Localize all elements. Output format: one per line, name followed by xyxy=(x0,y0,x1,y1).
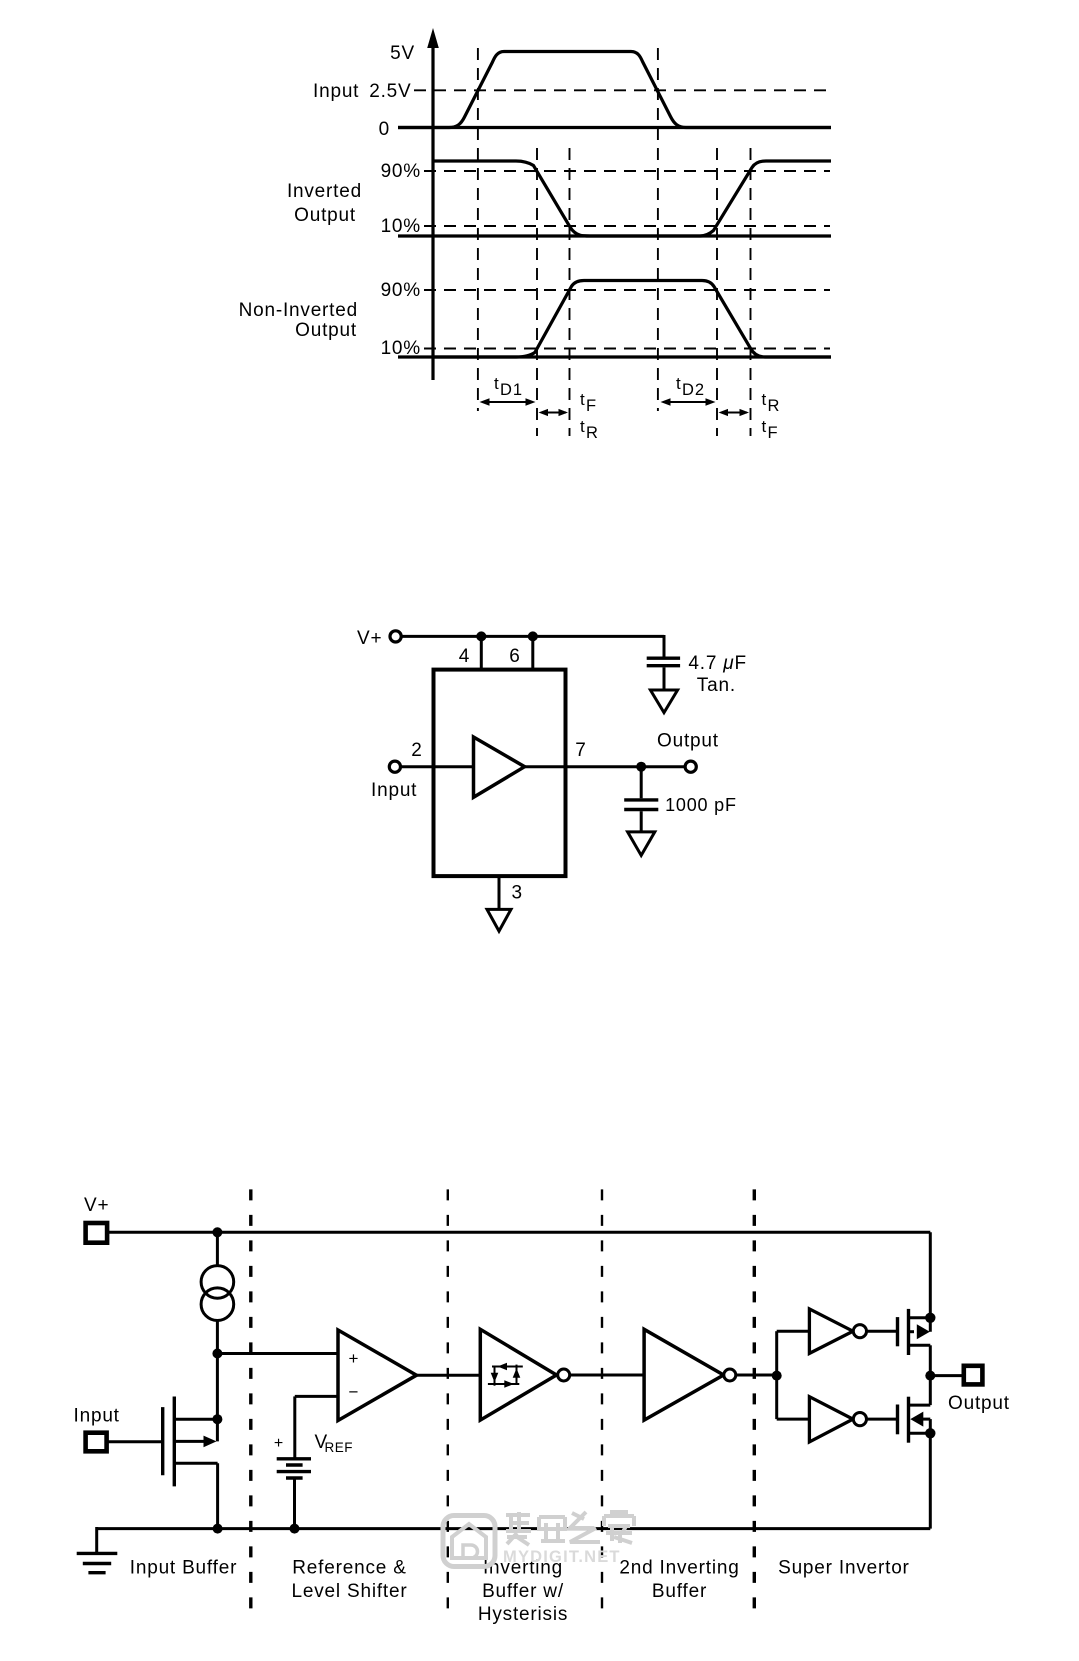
section separator 4 xyxy=(753,1189,756,1618)
label VREF xyxy=(315,1432,354,1455)
svg-text:Input: Input xyxy=(371,780,417,801)
node pin6 junction xyxy=(528,631,538,641)
svg-text:t: t xyxy=(762,417,767,436)
svg-text:t: t xyxy=(676,374,681,393)
non-inverted output waveform xyxy=(433,281,831,358)
input waveform trapezoid xyxy=(398,52,831,128)
wire to Q2 gate xyxy=(867,1330,897,1333)
90% dashed line (non-inverted) xyxy=(424,289,830,291)
svg-text:t: t xyxy=(580,417,585,436)
svg-text:F: F xyxy=(586,397,597,415)
90% dashed line (inverted) xyxy=(424,170,830,172)
svg-text:4: 4 xyxy=(459,646,470,667)
wire to ground xyxy=(95,1527,98,1553)
wire node A down to Q1 drain xyxy=(216,1354,219,1442)
wire to output terminal xyxy=(930,1374,961,1377)
svg-text:R: R xyxy=(586,424,599,442)
node A junction xyxy=(212,1349,222,1359)
svg-text:Super Invertor: Super Invertor xyxy=(778,1558,910,1579)
bubble (2nd inverter) xyxy=(724,1369,736,1381)
wire pin 4 xyxy=(480,636,483,670)
battery VREF xyxy=(277,1459,311,1529)
section separator 2 xyxy=(447,1189,449,1618)
node bottom rail junction (Q1 source) xyxy=(213,1524,223,1534)
wire to Q3 gate xyxy=(867,1418,897,1421)
wire node A to comparator + input xyxy=(217,1352,338,1355)
2.5V dashed threshold line xyxy=(414,89,830,91)
wire to 2nd inverter xyxy=(570,1374,644,1377)
svg-text:Hysterisis: Hysterisis xyxy=(478,1604,568,1625)
label tD1 xyxy=(494,374,523,399)
non-inverted output baseline xyxy=(398,355,831,358)
svg-text:Buffer: Buffer xyxy=(652,1581,707,1602)
capacitor 1000pF xyxy=(624,800,658,832)
svg-text:Input: Input xyxy=(313,81,359,102)
svg-text:1000 pF: 1000 pF xyxy=(665,795,737,815)
svg-text:Buffer w/: Buffer w/ xyxy=(482,1581,564,1602)
time axis with arrow xyxy=(427,28,439,380)
watermark text 数码之家 xyxy=(506,1512,634,1545)
ground (1000pF) xyxy=(628,832,655,856)
wire branch down xyxy=(777,1376,810,1420)
svg-text:0: 0 xyxy=(379,119,390,140)
svg-text:+: + xyxy=(274,1435,283,1452)
transistor Q3 (lower MOSFET) xyxy=(898,1397,931,1443)
svg-text:REF: REF xyxy=(325,1440,354,1455)
section separator 3 xyxy=(601,1189,603,1618)
current source I1 xyxy=(201,1266,234,1321)
transistor Q2 (upper MOSFET) xyxy=(898,1309,931,1355)
svg-text:3: 3 xyxy=(512,883,523,904)
terminal square Input xyxy=(86,1433,107,1452)
wire Q3 source to bottom rail xyxy=(929,1433,932,1528)
vertical dashed marker 3 (output 10/90 end) xyxy=(569,148,571,436)
10% dashed line (inverted) xyxy=(424,225,830,227)
svg-text:D2: D2 xyxy=(682,381,705,399)
wire current source to node xyxy=(216,1321,219,1354)
svg-text:V+: V+ xyxy=(357,628,382,649)
node Q2 drain junction xyxy=(925,1313,935,1323)
ground (pin 3) xyxy=(487,909,511,931)
wire to current source xyxy=(216,1232,219,1266)
inverting buffer w/ hysteresis U2 xyxy=(480,1329,556,1420)
terminal Input xyxy=(389,761,400,772)
inverted output waveform xyxy=(433,161,831,236)
tR/tF dimension arrow (right) xyxy=(719,409,750,416)
label tF (left) xyxy=(580,390,597,415)
svg-text:+: + xyxy=(349,1349,359,1368)
svg-text:Tan.: Tan. xyxy=(697,675,736,696)
svg-text:−: − xyxy=(349,1383,359,1402)
wire Q2 source to output node xyxy=(929,1345,932,1405)
tF/tR dimension arrow (left) xyxy=(539,409,569,416)
wire input to Q1 gate xyxy=(108,1440,161,1443)
vertical dashed marker 6 xyxy=(750,148,752,436)
wire comparator output xyxy=(417,1374,481,1377)
label 2nd Inverting Buffer xyxy=(619,1558,739,1603)
wire to 4.7uF cap xyxy=(663,635,666,657)
svg-text:t: t xyxy=(494,374,499,393)
vertical dashed marker 2 (output 10/90 start) xyxy=(536,148,538,436)
svg-text:10%: 10% xyxy=(381,216,421,237)
svg-text:Inverted: Inverted xyxy=(287,181,362,202)
bubble (hysteresis inverter) xyxy=(558,1369,570,1381)
svg-text:Output: Output xyxy=(295,320,357,341)
svg-text:90%: 90% xyxy=(381,161,421,182)
svg-text:Non-Inverted: Non-Inverted xyxy=(239,300,358,321)
wire branch up xyxy=(777,1331,810,1375)
label tF (right) xyxy=(762,417,779,442)
svg-text:D1: D1 xyxy=(500,381,523,399)
node Q1 drain junction xyxy=(212,1414,222,1424)
section separator 1 xyxy=(249,1189,252,1618)
svg-text:6: 6 xyxy=(509,646,520,667)
input waveform baseline (0V) xyxy=(398,126,831,129)
svg-text:V+: V+ xyxy=(84,1195,109,1216)
bubble (upper inverter) xyxy=(853,1325,866,1338)
wire top rail xyxy=(109,1231,930,1234)
node bottom rail junction (VREF) xyxy=(290,1524,300,1534)
svg-text:Level Shifter: Level Shifter xyxy=(291,1581,407,1602)
svg-text:90%: 90% xyxy=(381,280,421,301)
svg-text:t: t xyxy=(580,390,585,409)
lower inverter U5 xyxy=(809,1397,853,1442)
capacitor 4.7uF Tan. xyxy=(647,658,680,690)
svg-text:4.7 μF: 4.7 μF xyxy=(688,653,747,674)
wire pin 6 xyxy=(531,636,534,670)
ground xyxy=(77,1553,118,1572)
inverted output baseline xyxy=(398,234,831,237)
label Inverting Buffer w/ Hysterisis xyxy=(478,1558,568,1626)
vertical dashed marker 5 xyxy=(716,148,718,436)
label tR (right) xyxy=(762,390,781,415)
svg-text:7: 7 xyxy=(575,740,586,761)
wire to super inverter node xyxy=(736,1374,777,1377)
terminal square Output xyxy=(964,1366,983,1385)
wire V+ rail xyxy=(402,635,665,638)
ground (4.7uF) xyxy=(650,690,677,713)
vertical dashed marker 1 (input rise 2.5V) xyxy=(477,48,479,411)
node Q3 source junction xyxy=(925,1428,935,1438)
op-amp U1 (comparator) xyxy=(338,1330,417,1421)
wire to 1000pF cap xyxy=(640,767,643,799)
svg-text:t: t xyxy=(762,390,767,409)
label Reference & Level Shifter xyxy=(291,1558,407,1603)
10% dashed line (non-inverted) xyxy=(424,348,830,350)
wire buffer output xyxy=(525,765,686,768)
node pin4 junction xyxy=(476,631,486,641)
label tD2 xyxy=(676,374,705,399)
svg-text:5V: 5V xyxy=(390,43,415,64)
tD2 dimension arrow xyxy=(661,398,716,406)
svg-text:Input Buffer: Input Buffer xyxy=(130,1558,238,1579)
upper inverter U4 xyxy=(809,1309,853,1354)
2nd inverting buffer U3 xyxy=(644,1329,724,1420)
buffer amplifier triangle xyxy=(474,737,525,797)
wire bottom rail xyxy=(97,1527,931,1530)
svg-text:F: F xyxy=(768,424,779,442)
terminal square V+ xyxy=(86,1223,108,1243)
wire pin 3 xyxy=(498,876,501,909)
svg-text:R: R xyxy=(768,397,781,415)
tD1 dimension arrow xyxy=(480,398,536,406)
wire V+ rail down to Q2 xyxy=(929,1232,932,1331)
svg-text:MYDIGIT.NET: MYDIGIT.NET xyxy=(503,1548,621,1566)
node output junction xyxy=(925,1371,935,1381)
vertical dashed marker 4 (input fall 2.5V) xyxy=(657,48,659,411)
wire input to buffer xyxy=(401,765,474,768)
svg-text:2.5V: 2.5V xyxy=(369,81,411,102)
node super inverter input xyxy=(772,1371,782,1381)
svg-text:Output: Output xyxy=(294,205,356,226)
svg-text:Output: Output xyxy=(657,731,719,752)
svg-text:2: 2 xyxy=(411,740,422,761)
svg-text:Input: Input xyxy=(74,1406,120,1427)
hysteresis symbol xyxy=(488,1363,523,1388)
svg-text:2nd Inverting: 2nd Inverting xyxy=(619,1558,739,1579)
label tR (left) xyxy=(580,417,599,442)
terminal V+ xyxy=(390,631,401,642)
svg-text:Reference &: Reference & xyxy=(292,1558,406,1579)
watermark logo xyxy=(443,1516,495,1567)
terminal Output xyxy=(685,761,696,772)
node top rail junction xyxy=(212,1227,222,1237)
svg-text:Output: Output xyxy=(948,1393,1010,1414)
bubble (lower inverter) xyxy=(853,1413,866,1426)
transistor Q1 (input MOSFET) xyxy=(163,1397,218,1529)
wire comparator - input xyxy=(295,1396,338,1457)
node output junction xyxy=(636,762,646,772)
IC box U1 xyxy=(434,670,566,877)
